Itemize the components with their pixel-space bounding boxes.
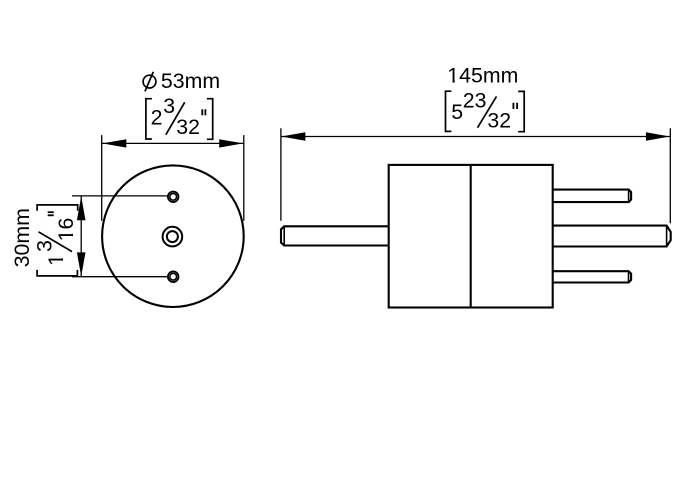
svg-text:5: 5 xyxy=(451,100,463,124)
top mounting hole xyxy=(168,192,179,203)
bottom pin xyxy=(553,271,631,282)
center hole xyxy=(163,227,183,247)
inch marks right xyxy=(513,103,517,109)
dimension line 145mm xyxy=(281,136,670,138)
extension line right of dia53 xyxy=(243,135,245,221)
svg-text:30mm: 30mm xyxy=(10,208,34,267)
fraction slash 3/16 xyxy=(39,232,73,252)
bracket ] of 2 3/32in xyxy=(207,99,213,140)
fraction slash 3/32 xyxy=(166,102,185,135)
extension line left of dia53 xyxy=(101,135,103,221)
arrowhead up 30mm xyxy=(77,196,86,220)
extension line left of 145mm xyxy=(280,128,282,221)
arrowhead down 30mm xyxy=(77,252,86,276)
svg-text:1: 1 xyxy=(44,254,68,266)
middle pin chamfer line xyxy=(666,226,668,247)
serif mask for 1 of 145mm xyxy=(448,81,452,84)
bracket [ of 2 3/32in xyxy=(146,99,152,139)
top pin chamfer line xyxy=(628,190,630,203)
svg-text:16: 16 xyxy=(54,218,78,242)
bottom mounting hole xyxy=(168,271,179,282)
extension line right of 145mm xyxy=(669,128,671,223)
middle pin xyxy=(553,226,671,247)
svg-text:32: 32 xyxy=(487,108,511,132)
serif mask for rotated 1 xyxy=(61,261,64,265)
svg-text:3: 3 xyxy=(163,94,175,118)
serif mask for 1 of 16 xyxy=(71,236,74,240)
top pin xyxy=(553,190,631,203)
bracket ] of 5 23/32in xyxy=(518,91,524,131)
dimension line dia53 xyxy=(102,142,244,144)
left rod xyxy=(281,226,389,245)
arrowhead right dia53 xyxy=(219,139,243,147)
fraction slash 23/32 xyxy=(478,96,497,127)
arrowhead left dia53 xyxy=(102,139,126,147)
bracket ] of 1 3/16in xyxy=(37,205,78,211)
body divider line xyxy=(470,165,472,308)
extension line bottom hole (30mm dim) xyxy=(72,276,167,278)
bracket [ of 1 3/16in xyxy=(37,270,77,276)
bracket [ of 5 23/32in xyxy=(446,91,452,131)
dimension line 30mm vertical xyxy=(80,196,82,277)
svg-text:53mm: 53mm xyxy=(161,69,220,93)
bottom pin chamfer line xyxy=(628,271,630,282)
svg-text:145mm: 145mm xyxy=(447,64,518,88)
extension line top hole (30mm dim) xyxy=(72,195,167,197)
left rod chamfer line xyxy=(283,226,285,245)
svg-text:23: 23 xyxy=(463,88,487,112)
svg-text:32: 32 xyxy=(176,115,200,139)
inch marks xyxy=(202,109,205,115)
bracket group 1 3/16in rotated xyxy=(33,205,78,276)
arrowhead right 145mm xyxy=(646,132,670,140)
diameter symbol xyxy=(143,72,156,92)
flange face circle xyxy=(102,165,244,307)
arrowhead left 145mm xyxy=(281,132,305,140)
body rectangle side view xyxy=(389,165,553,308)
svg-text:2: 2 xyxy=(151,106,163,130)
inch marks rotated xyxy=(48,212,54,215)
